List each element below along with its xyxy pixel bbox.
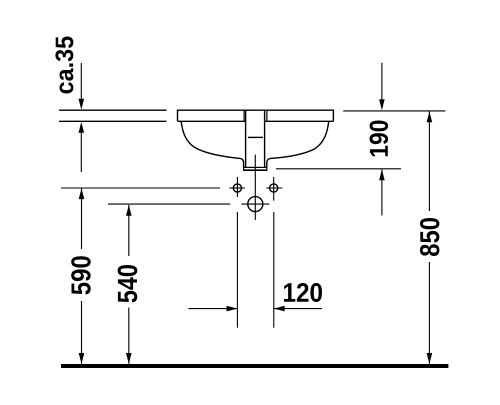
drain joint line <box>248 136 263 138</box>
dim 190 upper shaft <box>381 63 383 106</box>
drain column left edge <box>245 110 247 167</box>
dim 850 line lower <box>428 262 430 364</box>
faucet hole right <box>270 184 278 192</box>
dim ca.35 lower shaft <box>80 127 82 172</box>
dim 540 lower arrow <box>126 353 132 364</box>
dim 540 extension line <box>108 203 230 205</box>
dim 120 left arrow <box>227 306 238 312</box>
floor line <box>61 364 448 368</box>
dim ca.35 lower arrow <box>79 122 85 133</box>
dim 540 line lower <box>128 308 130 364</box>
dim 120 extension line right <box>273 212 275 328</box>
dim 850 line upper <box>428 112 430 212</box>
bowl outline right <box>267 122 329 167</box>
drain centerline <box>254 155 256 220</box>
dim 190 lower shaft <box>381 169 383 215</box>
dim 590 line upper <box>81 188 83 249</box>
faucet hole right crosshair <box>266 187 282 189</box>
dim 540 upper arrow <box>126 205 132 216</box>
countertop left top line <box>59 109 167 111</box>
overflow wall tick right <box>266 111 268 121</box>
dim 590 upper arrow <box>79 188 85 199</box>
countertop right extension line <box>343 110 445 112</box>
dim 540 line upper <box>128 205 130 256</box>
bowl outline left <box>181 122 243 167</box>
dim 590 line lower <box>81 301 83 364</box>
dim 850 upper arrow <box>427 112 433 123</box>
overflow wall tick left <box>243 111 245 122</box>
dim 590 lower arrow <box>79 353 85 364</box>
drain cap bottom edge <box>243 169 267 171</box>
dim 590 extension line <box>61 187 220 189</box>
drain cap <box>244 167 267 170</box>
dim ca.35 upper shaft <box>80 63 82 105</box>
dim 590 label <box>71 256 91 294</box>
dim 850 label <box>420 218 439 256</box>
drain bottom extension line <box>276 168 401 170</box>
dim 190 upper arrow <box>379 99 385 110</box>
dim ca.35 upper arrow <box>79 99 85 110</box>
drain hole crosshair horizontal <box>241 203 269 205</box>
drain hole <box>248 197 263 212</box>
faucet hole left <box>233 184 241 192</box>
basin rim <box>178 110 334 122</box>
dim 190 lower arrow <box>379 169 385 180</box>
dim 120 right tail <box>274 308 322 310</box>
dim 540 label <box>118 265 138 303</box>
drain column right edge <box>264 110 266 167</box>
dim ca.35 label <box>55 37 73 94</box>
faucet hole left crosshair <box>230 187 245 189</box>
dim 120 right arrow <box>274 306 285 312</box>
dim 120 left tail <box>189 308 238 310</box>
dim 850 lower arrow <box>427 353 433 364</box>
dim 190 label <box>370 121 389 157</box>
dim 120 label <box>284 283 322 302</box>
dim 120 extension line left <box>236 212 238 328</box>
countertop left bottom line <box>59 120 167 122</box>
